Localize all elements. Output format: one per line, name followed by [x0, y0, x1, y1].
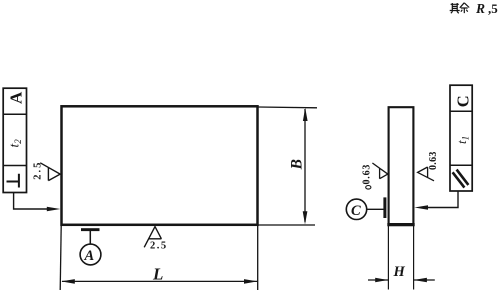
svg-text:B: B — [289, 159, 306, 170]
note text: character yu — [460, 3, 469, 13]
arrowhead H left — [375, 278, 388, 282]
main view plate outline — [62, 106, 258, 225]
side view plate outline — [389, 107, 414, 225]
svg-text:0.63: 0.63 — [428, 151, 439, 170]
svg-text:A: A — [84, 248, 95, 264]
svg-text:2.5: 2.5 — [150, 241, 168, 252]
roughness symbol 0.63 on side view right edge — [418, 167, 434, 181]
datum C circle — [346, 199, 366, 219]
extension line bottom left for L — [60, 226, 61, 290]
svg-text:C: C — [454, 95, 473, 107]
datum C bar — [383, 197, 386, 218]
extension line below side view right — [413, 226, 415, 290]
svg-text:A: A — [7, 91, 26, 104]
feature control frame parallelism right — [450, 85, 472, 191]
arrowhead L right — [244, 279, 258, 284]
svg-text:H: H — [393, 264, 406, 280]
svg-text:,5: ,5 — [488, 1, 498, 16]
extension line bottom right for B — [258, 224, 315, 226]
cell divider C/t1 — [450, 110, 472, 112]
extension line top right for B — [258, 106, 317, 109]
roughness symbol 2.5 on left edge — [40, 163, 60, 181]
cell divider t1/parallel — [450, 164, 472, 166]
leader arrowhead at side view right edge — [414, 205, 428, 209]
extension line bottom right for L — [257, 226, 259, 290]
dimension line H right part — [414, 279, 435, 281]
dimension line H left part — [368, 279, 388, 281]
leader from perpendicularity frame — [14, 193, 48, 210]
roughness symbol 2.5 on bottom edge — [144, 227, 161, 248]
datum A bar — [81, 228, 100, 231]
datum C leader line — [367, 208, 384, 210]
svg-text:R: R — [475, 1, 485, 16]
svg-text:C: C — [351, 203, 361, 219]
roughness symbol 0.63 on side view left edge — [372, 163, 387, 179]
feature control frame perpendicularity left — [3, 88, 26, 192]
svg-text:0.63: 0.63 — [361, 164, 372, 185]
dimension line B — [304, 109, 306, 222]
arrowhead H right — [414, 278, 427, 282]
arrowhead L left — [61, 279, 75, 284]
svg-text:2.5: 2.5 — [33, 161, 44, 180]
datum A circle — [80, 244, 101, 265]
arrowhead B bottom — [303, 211, 308, 224]
side view heavy bottom edge — [387, 223, 414, 226]
extension line below side view left — [387, 226, 389, 290]
note text: character qi — [450, 3, 460, 13]
cell divider t2/perp — [3, 165, 26, 167]
leader arrowhead at left edge — [47, 207, 61, 212]
leader from parallelism frame — [428, 191, 458, 208]
datum A stem — [89, 231, 91, 244]
perpendicularity symbol (rotated) — [7, 174, 19, 188]
dimension line L — [62, 280, 257, 282]
svg-text:L: L — [152, 264, 163, 283]
arrowhead B top — [303, 108, 308, 121]
cell divider A/t2 — [3, 113, 26, 115]
parallelism symbol (rotated) — [453, 170, 469, 188]
small speck — [366, 186, 371, 190]
